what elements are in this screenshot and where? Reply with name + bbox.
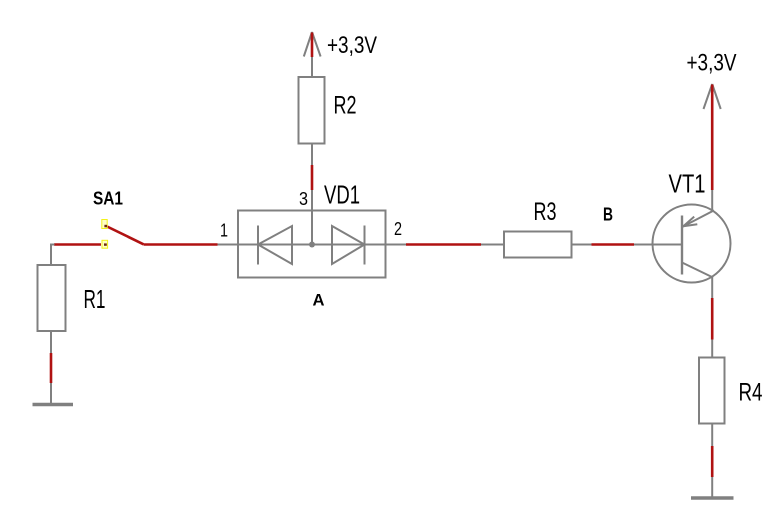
transistor VT1 base bar [681,216,683,275]
wire: left horizontal red to switch [54,243,101,246]
svg-text:R2: R2 [334,92,357,120]
switch SA1 lever (red diagonal) [106,226,144,244]
wire: arrow to R2 top [311,57,313,77]
svg-text:R3: R3 [534,198,557,226]
svg-text:A: A [313,291,325,310]
transistor VT1 body circle [653,205,731,283]
VD1 internal horizontal wire [238,244,386,246]
resistor R2 [299,77,325,144]
svg-text:SA1: SA1 [93,189,123,209]
transistor VT1 emitter [682,210,714,227]
ground (right) [691,496,734,500]
wire: R1 bottom to ground (gray-red-gray) [50,331,52,403]
switch SA1 lower contact (yellow pad) [102,240,108,248]
wire stub: VD1 pin2 gray [386,244,407,246]
power +3,3V arrow (left, above R2) [304,32,321,57]
power +3,3V arrow (right, above VT1) [704,84,721,109]
wire: R2 bottom to VD1 pin 3 (gray-red-gray) [311,144,313,212]
resistor R1 [38,265,66,331]
VD1 internal vertical wire to pin 3 [311,211,313,245]
VD1 center junction dot [309,242,315,248]
wire stub: to R3 left (gray) [481,244,504,246]
wire: R4 bottom to ground (gray-red-gray) [711,424,713,497]
wire: pin2 to R3 (red) [406,243,481,246]
svg-text:+3,3V: +3,3V [687,50,737,77]
wire: base lead into VT1 (gray) [634,244,682,246]
svg-text:3: 3 [299,189,308,209]
wire stub: R3 right (gray) [572,244,592,246]
diode assembly VD1 box [238,211,386,278]
transistor VT1 emitter arrow (PNP, into base) [683,217,697,227]
wire stub: pin1 gray [218,244,239,246]
wire: switch to pin1 (red) [144,243,218,246]
svg-text:R1: R1 [84,284,106,314]
switch SA1 upper contact (yellow pad) [102,220,107,229]
resistor R4 [699,358,725,424]
svg-text:R4: R4 [739,379,763,407]
wire: to emitter junction (gray) [711,190,713,211]
svg-text:1: 1 [220,221,228,241]
svg-text:+3,3V: +3,3V [327,32,377,59]
resistor R3 [504,232,572,258]
diode D-right (triangle pointing right) [332,226,365,264]
svg-text:VT1: VT1 [669,169,706,199]
diode D-right (cathode bar) [364,226,366,265]
ground (left) [33,403,74,407]
diode D-left (triangle pointing left) [258,226,292,264]
svg-text:B: B [603,205,613,225]
diode D-left (cathode bar) [257,226,259,265]
svg-text:VD1: VD1 [324,180,360,210]
svg-text:2: 2 [394,219,402,239]
wire: node B (red) [592,243,635,246]
wire: arrow to emitter (red) [711,85,714,191]
wire: corner to R1 (gray) [51,245,55,266]
wire: collector down (gray-red-gray) [711,277,713,358]
transistor VT1 collector [682,263,713,278]
